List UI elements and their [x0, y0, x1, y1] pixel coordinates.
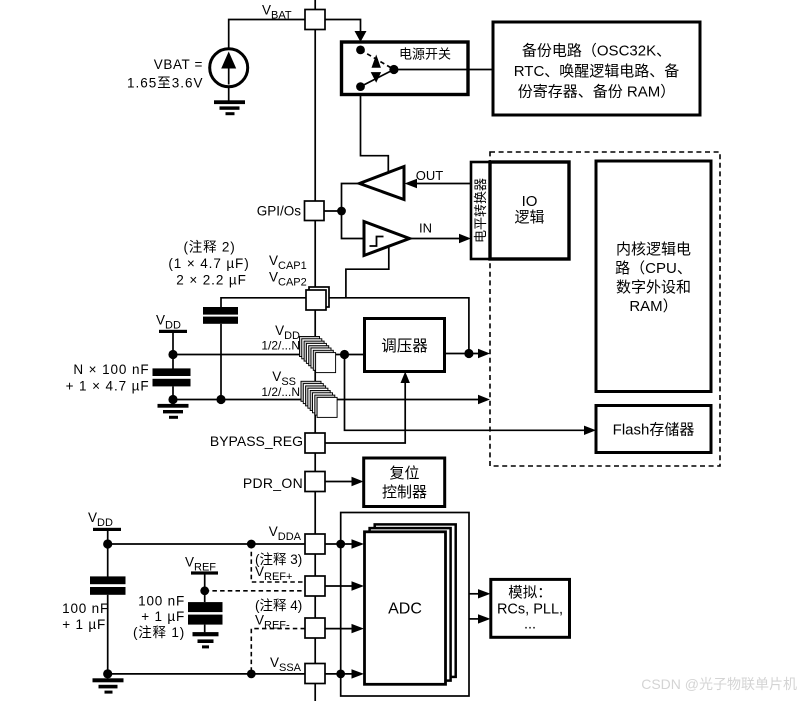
svg-text:模拟：: 模拟：: [508, 585, 552, 602]
node VDD right junction: [340, 350, 349, 359]
node VDD junction left: [168, 350, 177, 359]
dashed core boundary: [490, 152, 720, 466]
wire main pin bus: [314, 0, 316, 701]
ground bottom VDD: [93, 678, 124, 693]
svg-text:RAM）: RAM）: [629, 298, 677, 315]
svg-text:+ 1 µF: + 1 µF: [141, 609, 185, 624]
wire VCAP row: [221, 298, 306, 307]
svg-text:数字外设和: 数字外设和: [616, 279, 691, 296]
wire VBAT pin to power switch: [325, 20, 361, 34]
node VREF junction: [200, 586, 209, 595]
node VSSA adc junction: [336, 670, 345, 679]
svg-text:BYPASS_REG: BYPASS_REG: [210, 433, 303, 449]
ADC outer group boundary: [341, 513, 469, 697]
level shifter box: [471, 162, 490, 259]
pin VBAT: [305, 10, 325, 30]
node bottom VDD junction: [103, 539, 112, 548]
svg-text:1/2/...N: 1/2/...N: [261, 339, 300, 353]
svg-text:VBAT =: VBAT =: [154, 57, 203, 72]
node note3 junction: [247, 540, 256, 549]
capacitor 2x2.2uF: [203, 307, 238, 400]
svg-text:(注释 4): (注释 4): [255, 598, 302, 613]
wire PDR_ON to reset controller: [325, 477, 364, 486]
buffer IN schmitt: [342, 211, 472, 256]
power switch box: [342, 42, 469, 95]
svg-text:+ 1 µF: + 1 µF: [62, 617, 106, 632]
wire VSS row with arrow into core: [173, 395, 490, 404]
pin VREF+: [305, 576, 325, 596]
svg-text:1/2/...N: 1/2/...N: [261, 385, 300, 399]
svg-text:备份电路（OSC32K、: 备份电路（OSC32K、: [522, 43, 671, 60]
core logic box: [596, 161, 711, 392]
ground battery: [214, 87, 245, 116]
ground VREF: [193, 632, 219, 648]
analog box: [491, 579, 570, 637]
dashed note4 branch: [251, 629, 305, 674]
wire VREF- to ADC: [325, 624, 364, 633]
reset controller box: [364, 458, 445, 507]
wire VREF+ to ADC: [325, 581, 364, 590]
svg-text:路（CPU、: 路（CPU、: [615, 260, 692, 277]
wire BYPASS to regulator: [325, 372, 410, 444]
svg-text:2 × 2.2 µF: 2 × 2.2 µF: [176, 273, 246, 288]
VDD rail bottom: [88, 510, 121, 544]
pin VDDA: [305, 534, 325, 554]
power switch contacts: [356, 46, 398, 92]
pin VSSA: [305, 664, 325, 684]
svg-text:(注释 1): (注释 1): [133, 625, 185, 640]
svg-text:100 nF: 100 nF: [138, 594, 185, 609]
pin PDR_ON: [305, 472, 325, 492]
wire ADC to analog box upper: [469, 589, 491, 598]
pin BYPASS_REG: [305, 433, 325, 453]
svg-text:ADC: ADC: [388, 601, 422, 618]
wire regulator output: [445, 349, 491, 358]
VDD rail top: [156, 313, 187, 355]
wire VBAT pin to current source: [229, 20, 305, 49]
node VSS cap junction: [168, 395, 177, 404]
node note4 junction: [247, 670, 256, 679]
capacitor VREF 100nF+1uF: [133, 594, 223, 641]
svg-text:GPI/Os: GPI/Os: [257, 204, 302, 219]
ground under VDD caps: [158, 404, 189, 419]
svg-text:RTC、唤醒逻辑电路、备: RTC、唤醒逻辑电路、备: [514, 63, 680, 80]
pin stack VSS 1/2/...N: [301, 381, 337, 417]
wire VDDA row: [108, 539, 364, 548]
wire IN buffer lower to VCAP net: [346, 247, 389, 298]
pin VCAP1 VCAP2: [306, 287, 329, 310]
IO logic box: [490, 162, 569, 259]
pin VREF-: [305, 618, 325, 638]
node VDDA adc junction: [336, 540, 345, 549]
pin stack VDD 1/2/...N: [300, 337, 336, 373]
svg-text:OUT: OUT: [416, 168, 444, 183]
svg-text:IO: IO: [522, 193, 538, 210]
wire VDD row: [173, 354, 365, 356]
wire VDD to flash: [345, 355, 597, 436]
svg-text:电源开关: 电源开关: [399, 47, 451, 62]
wire power switch to OUT buffer: [361, 94, 389, 173]
svg-text:PDR_ON: PDR_ON: [243, 475, 303, 491]
pin GPI/Os: [305, 201, 325, 221]
regulator box: [365, 319, 445, 372]
ADC box stack: [365, 524, 456, 684]
flash box: [596, 406, 711, 453]
svg-text:Flash存储器: Flash存储器: [613, 422, 695, 439]
svg-text:(注释 2): (注释 2): [183, 240, 235, 255]
svg-text:1.65至3.6V: 1.65至3.6V: [127, 76, 204, 91]
capacitor bottom VDD 100nF+1uF: [62, 544, 125, 674]
dashed VREF to VREF+ pin: [205, 590, 305, 592]
svg-text:...: ...: [524, 617, 536, 633]
wire power switch to backup circuit: [398, 69, 493, 71]
svg-text:IN: IN: [419, 221, 432, 236]
wire VSSA row: [108, 673, 353, 675]
svg-text:RCs, PLL,: RCs, PLL,: [497, 602, 563, 618]
wire ADC to analog box lower: [469, 614, 491, 623]
svg-text:复位: 复位: [389, 464, 419, 482]
dashed note3 branch: [251, 544, 303, 582]
buffer OUT: [342, 167, 472, 212]
current source VBAT: [210, 49, 248, 87]
node VSSA left junction: [103, 669, 112, 678]
svg-text:CSDN @光子物联单片机: CSDN @光子物联单片机: [641, 676, 797, 692]
svg-text:电平转换器: 电平转换器: [473, 178, 488, 243]
svg-text:份寄存器、备份 RAM）: 份寄存器、备份 RAM）: [518, 83, 676, 101]
node note2 cap junction: [216, 395, 225, 404]
node GPIO junction: [337, 207, 346, 216]
capacitor N x 100nF: [66, 355, 191, 400]
svg-text:N × 100 nF: N × 100 nF: [73, 362, 149, 377]
VREF rail: [185, 555, 218, 603]
svg-text:(1 × 4.7 µF): (1 × 4.7 µF): [168, 256, 249, 271]
wire GPIO pin to junction: [324, 210, 342, 212]
backup circuit box: [493, 22, 700, 115]
svg-text:控制器: 控制器: [382, 484, 427, 501]
svg-text:逻辑: 逻辑: [514, 209, 544, 226]
svg-text:+ 1 × 4.7 µF: + 1 × 4.7 µF: [66, 379, 150, 394]
svg-text:调压器: 调压器: [381, 337, 428, 355]
svg-text:100 nF: 100 nF: [62, 601, 109, 616]
svg-text:内核逻辑电: 内核逻辑电: [616, 241, 691, 258]
